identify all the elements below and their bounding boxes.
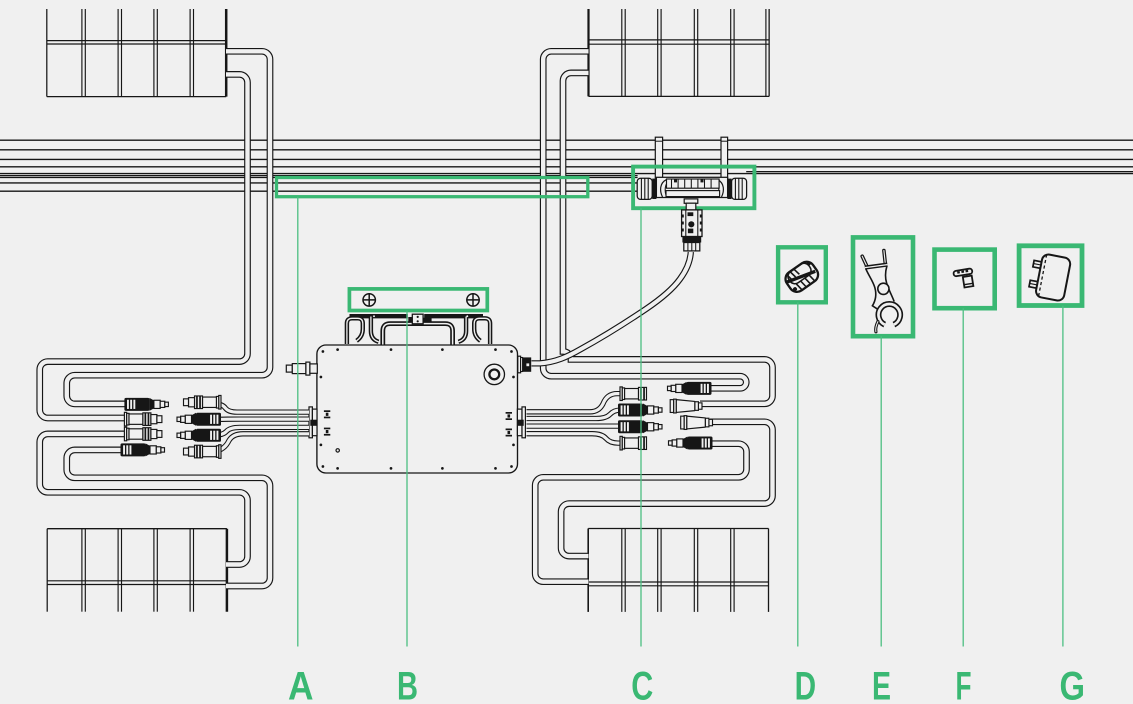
callout line F xyxy=(962,308,964,646)
inverter AC port (right side) xyxy=(518,356,531,373)
wire from right row3 connector loop to PV4 xyxy=(561,422,772,556)
trunk cable and mounting rail lines xyxy=(0,140,1133,191)
callout line E xyxy=(880,336,882,646)
component F cap nut xyxy=(953,268,974,289)
svg-text:C: C xyxy=(631,665,653,704)
screw right in box B xyxy=(466,293,479,306)
inverter DC gland left xyxy=(309,407,317,438)
right field PV-side connectors rows 1-4 xyxy=(668,382,713,450)
svg-text:B: B xyxy=(397,665,418,704)
AC drop wire from trunk connector to inverter AC port xyxy=(532,252,691,363)
inverter AC stub connector (left side) xyxy=(286,362,317,375)
trunk connector mounting posts xyxy=(655,137,727,178)
wire from PV1 (+) loop to row1 connector xyxy=(67,51,270,404)
callout line C xyxy=(640,208,642,646)
component D sealing cap xyxy=(782,259,821,295)
inverter DC gland right xyxy=(517,407,525,438)
inverter AC knockout circle xyxy=(484,364,504,384)
panel PV2 top-right xyxy=(589,9,770,96)
component G trunk end cap xyxy=(1027,252,1071,302)
svg-text:G: G xyxy=(1060,665,1086,704)
panel PV1 top-left xyxy=(47,9,226,97)
callout box F xyxy=(935,250,995,309)
inverter port labels left xyxy=(324,410,330,435)
svg-text:A: A xyxy=(288,665,314,704)
callout box E xyxy=(853,237,913,336)
wire from right row4 connector loop to PV4 xyxy=(535,444,746,582)
inverter ground hole xyxy=(336,449,339,452)
left field inverter pigtail connectors rows 1-4 xyxy=(177,395,221,458)
callout line G xyxy=(1062,306,1064,647)
callout box G xyxy=(1019,246,1082,306)
left field PV-side connectors rows 1-4 xyxy=(121,398,169,457)
svg-text:F: F xyxy=(956,665,972,704)
callout box C xyxy=(633,167,754,209)
wire from PV3 (-) loop to row4 connector xyxy=(67,450,270,586)
wire from PV2 (+) loop with U-turn to right row1 connector xyxy=(543,51,746,388)
AC drop connector under trunk tee xyxy=(682,210,702,251)
callout box A xyxy=(277,178,588,197)
svg-text:D: D xyxy=(795,665,817,704)
wire from PV1 (-) loop to row2 connector xyxy=(40,74,248,418)
inverter DC pigtail wires right xyxy=(527,394,623,444)
wire from PV3 (+) loop to row3 connector xyxy=(40,434,248,565)
trunk mounting bracket above inverter xyxy=(347,314,490,344)
inverter screw dots xyxy=(320,348,515,470)
panel PV4 bottom-right xyxy=(588,529,768,612)
callout box B xyxy=(349,289,487,311)
right field inverter pigtail connectors rows 1-4 xyxy=(618,387,662,450)
screw left in box B xyxy=(363,293,376,306)
callout line B xyxy=(406,311,408,647)
microinverter body xyxy=(317,345,518,473)
callout line D xyxy=(797,302,799,646)
callout line A xyxy=(297,197,299,647)
panel PV3 bottom-left xyxy=(47,529,227,612)
inverter DC pigtail wires left xyxy=(210,404,309,452)
inverter port labels right xyxy=(506,412,512,437)
trunk tee connector C body xyxy=(637,177,746,210)
callout box D xyxy=(778,247,826,302)
svg-text:E: E xyxy=(872,665,891,704)
wire from PV2 (-) loop to right row2 connector xyxy=(563,73,773,404)
component E disconnect tool xyxy=(862,251,900,332)
